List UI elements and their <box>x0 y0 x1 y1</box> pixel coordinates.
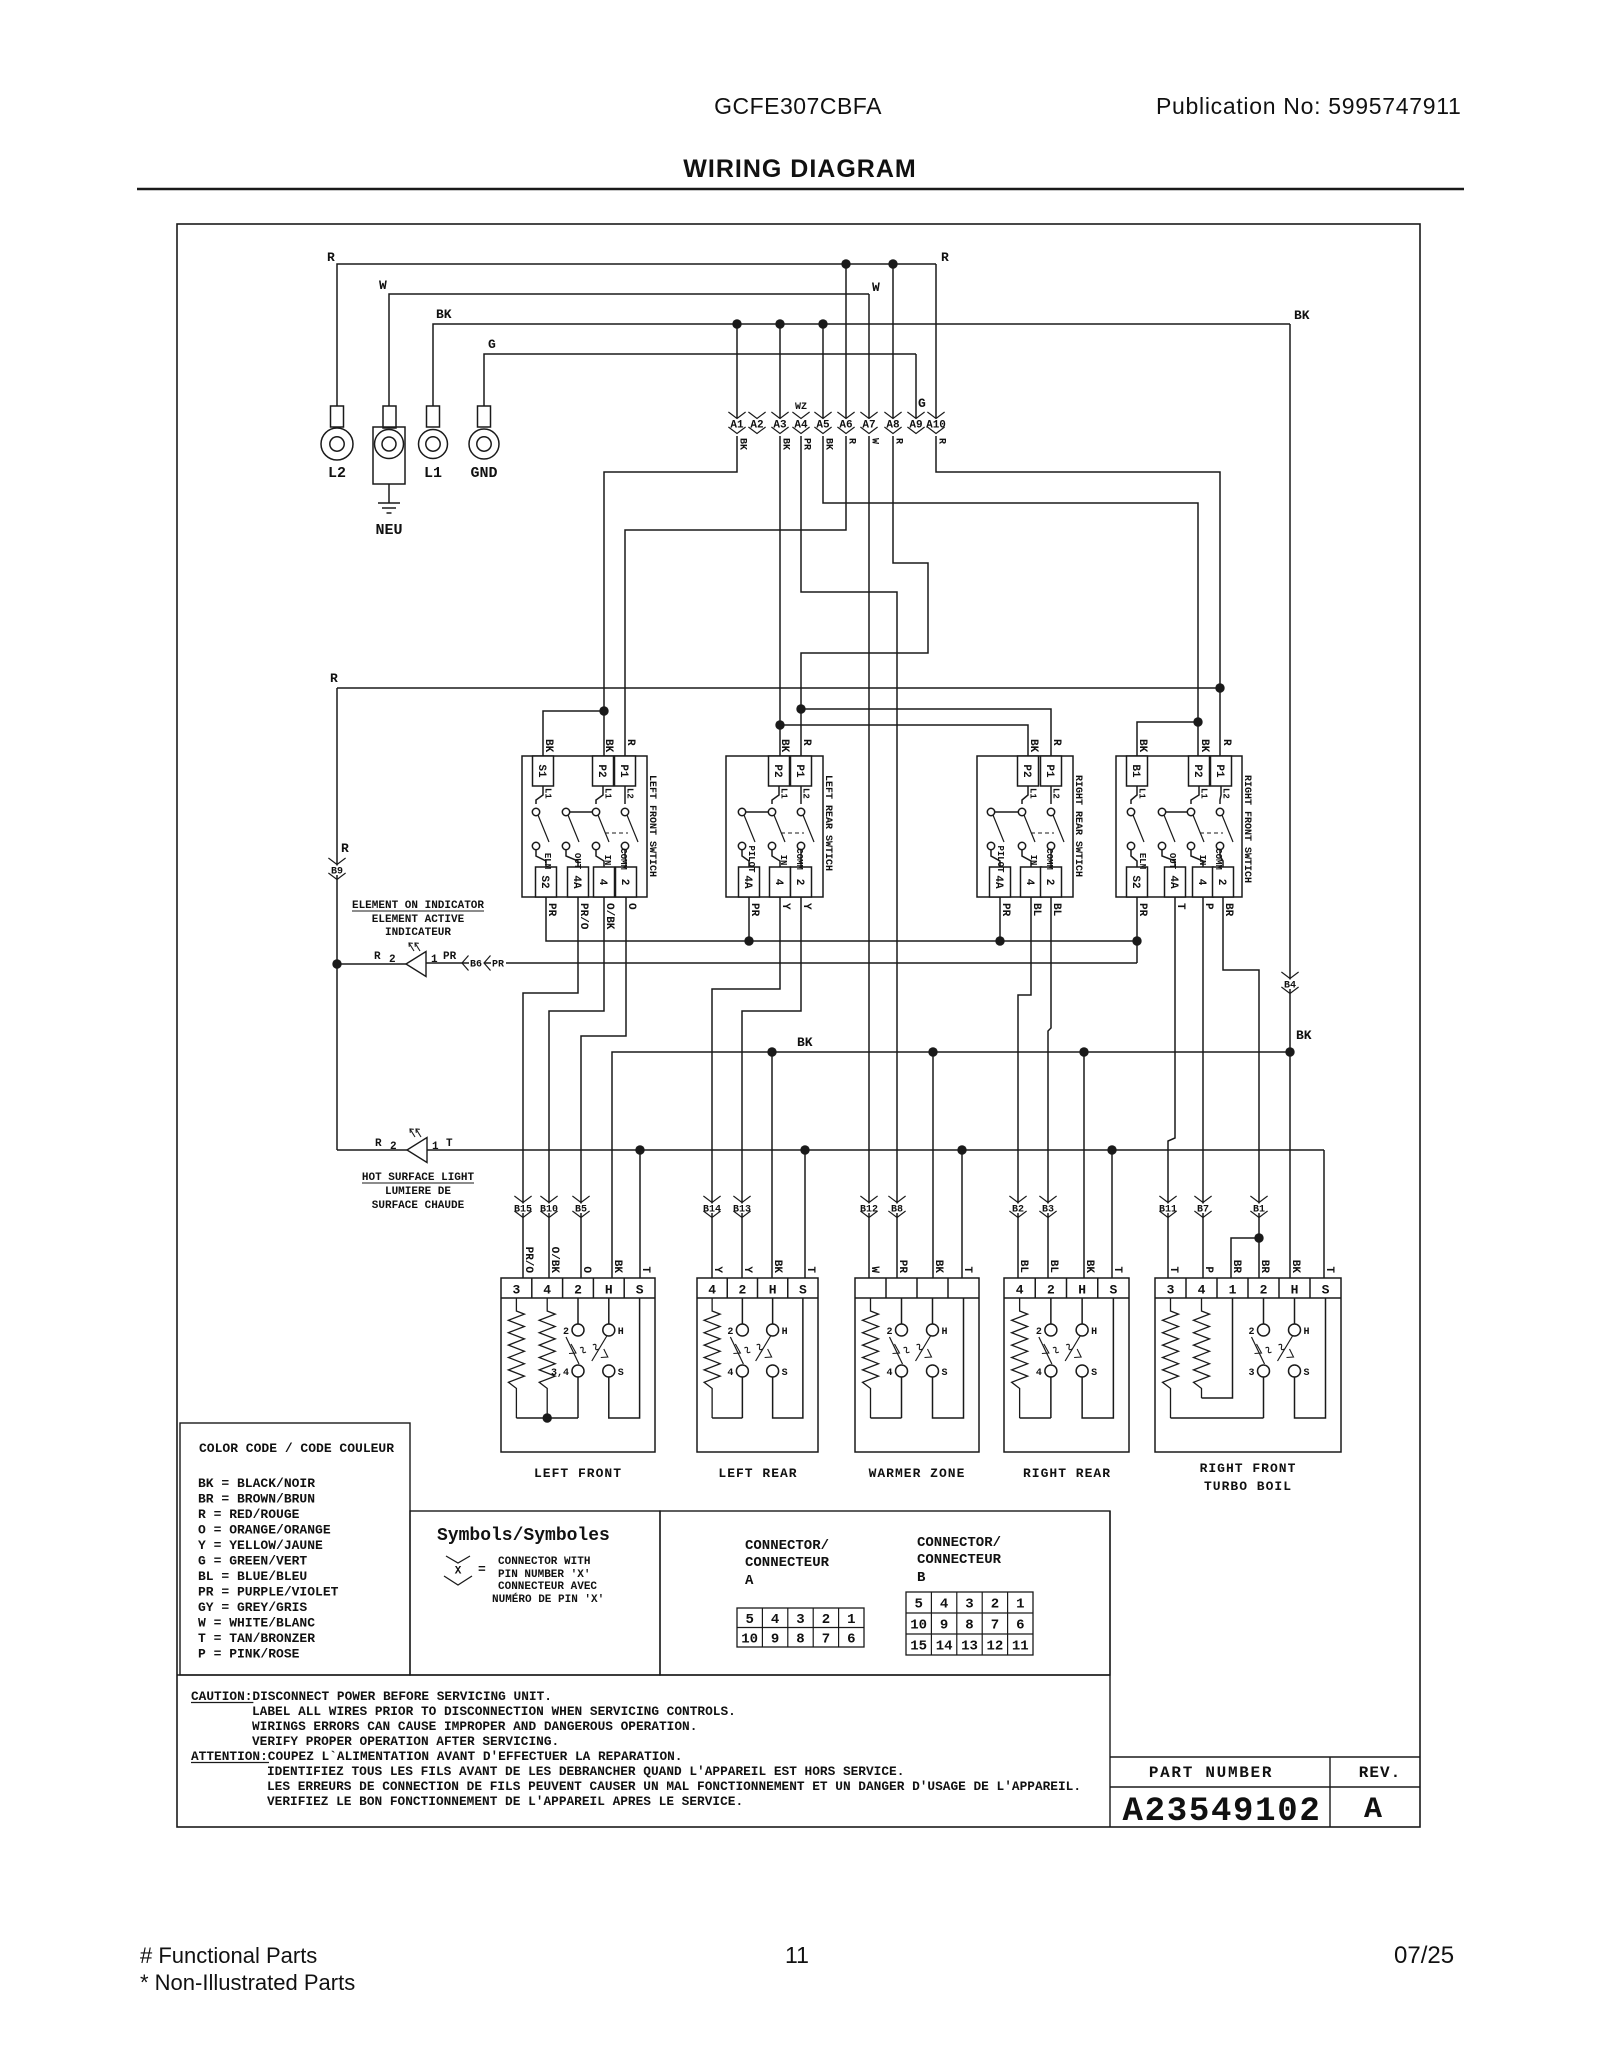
heating element resistor <box>704 1298 720 1418</box>
B1 riser to P2 junction <box>1137 722 1198 756</box>
connector tables box <box>660 1511 1110 1675</box>
svg-text:S: S <box>1109 1283 1117 1298</box>
thermostat contacts <box>736 1324 748 1336</box>
svg-text:B1: B1 <box>1129 764 1141 778</box>
svg-text:T: T <box>804 1266 816 1273</box>
svg-text:CONNECTEUR: CONNECTEUR <box>917 1552 1002 1568</box>
wire RR 4 BL to B2 <box>1018 897 1031 1278</box>
svg-text:PART NUMBER: PART NUMBER <box>1149 1764 1273 1782</box>
svg-text:G: G <box>918 396 926 411</box>
svg-text:2: 2 <box>793 879 805 886</box>
connector pin table <box>906 1592 1033 1655</box>
svg-text:CONNECTOR WITH: CONNECTOR WITH <box>498 1556 590 1568</box>
svg-text:BL: BL <box>1047 1260 1059 1274</box>
wire LF 4A PR/O to B15 <box>523 897 578 1278</box>
wire A8 to LR P1 <box>801 436 928 756</box>
connector pin A2 <box>748 412 765 419</box>
svg-text:2: 2 <box>389 954 396 966</box>
wire LED to PR net <box>426 962 1137 964</box>
terminal 4 of LEFT REAR SWTICH <box>772 850 780 867</box>
svg-text:R: R <box>341 841 349 856</box>
svg-text:PILOT: PILOT <box>746 845 756 873</box>
svg-text:4: 4 <box>1198 1283 1206 1298</box>
svg-text:ELEMENT ACTIVE: ELEMENT ACTIVE <box>372 914 465 926</box>
svg-text:COMM: COMM <box>618 848 628 870</box>
svg-text:10: 10 <box>741 1631 758 1647</box>
terminal P1 of RIGHT REAR SWTICH <box>1041 756 1062 786</box>
svg-text:W = WHITE/BLANC: W = WHITE/BLANC <box>198 1616 315 1631</box>
wire LR 2 Y to B13 <box>742 897 801 1278</box>
terminal S2 of LEFT FRONT SWTICH <box>536 850 546 867</box>
connector pin B5 <box>572 1196 589 1203</box>
svg-text:BK: BK <box>1294 308 1310 323</box>
terminal S1 of LEFT FRONT SWTICH <box>533 756 554 786</box>
svg-text:12: 12 <box>986 1639 1003 1655</box>
svg-text:BK: BK <box>823 438 834 450</box>
svg-text:3: 3 <box>796 1612 804 1628</box>
connector pin B7 <box>1194 1196 1211 1203</box>
connector pin B11 <box>1159 1196 1176 1203</box>
svg-text:2: 2 <box>1260 1283 1268 1298</box>
svg-text:4: 4 <box>1036 1368 1042 1379</box>
svg-text:CONNECTOR/: CONNECTOR/ <box>917 1535 1001 1551</box>
svg-text:IN: IN <box>778 855 788 866</box>
svg-text:4: 4 <box>543 1283 551 1298</box>
svg-text:P2: P2 <box>1020 764 1032 777</box>
svg-text:H: H <box>769 1283 777 1298</box>
svg-text:Y: Y <box>779 903 791 910</box>
terminal 2 of LEFT REAR SWTICH <box>800 850 802 867</box>
svg-text:S2: S2 <box>1129 875 1141 888</box>
svg-text:Y: Y <box>800 903 812 910</box>
svg-text:T: T <box>1167 1266 1179 1273</box>
svg-text:H: H <box>1078 1283 1086 1298</box>
svg-text:L1: L1 <box>779 788 789 799</box>
svg-text:W: W <box>868 1266 880 1273</box>
connector pin B3 <box>1039 1196 1056 1203</box>
supply line W from NEU <box>389 294 869 406</box>
wire RR 4A PR <box>999 897 1001 941</box>
svg-text:IN: IN <box>1028 855 1038 866</box>
symbols box <box>410 1511 660 1675</box>
connector pin B13 <box>733 1196 750 1203</box>
svg-text:O = ORANGE/ORANGE: O = ORANGE/ORANGE <box>198 1523 331 1538</box>
svg-text:VERIFY PROPER OPERATION AFTER: VERIFY PROPER OPERATION AFTER SERVICING. <box>252 1734 559 1749</box>
svg-text:PR/O: PR/O <box>577 903 589 930</box>
svg-text:L1: L1 <box>1199 788 1209 799</box>
wire LR 4 Y to B14 <box>712 897 780 1278</box>
svg-text:S: S <box>799 1283 807 1298</box>
terminal L1 <box>427 406 440 427</box>
svg-text:PR: PR <box>443 951 457 963</box>
svg-text:4: 4 <box>772 879 784 886</box>
connector pin table <box>737 1608 864 1647</box>
svg-text:A: A <box>745 1573 754 1589</box>
heating element resistor <box>508 1298 524 1418</box>
svg-text:CONNECTEUR AVEC: CONNECTEUR AVEC <box>498 1581 597 1593</box>
svg-text:BR: BR <box>1230 1260 1242 1274</box>
switch box RIGHT FRONT SWTICH <box>1116 756 1242 897</box>
svg-text:BL: BL <box>1050 903 1062 917</box>
svg-text:BL: BL <box>1030 903 1042 917</box>
svg-text:PR: PR <box>801 438 812 450</box>
svg-text:4: 4 <box>771 1612 779 1628</box>
svg-text:H: H <box>1291 1283 1299 1298</box>
BK drop warmer H <box>932 1052 934 1278</box>
svg-text:4: 4 <box>596 879 608 886</box>
terminal P2 of RIGHT FRONT SWTICH <box>1189 756 1210 786</box>
part number box <box>1110 1756 1420 1758</box>
LED hot surface light <box>337 1149 407 1151</box>
element block RIGHT REAR <box>1004 1278 1129 1452</box>
svg-text:PR/O: PR/O <box>522 1247 534 1274</box>
svg-text:COLOR CODE / CODE COULEUR: COLOR CODE / CODE COULEUR <box>199 1441 394 1456</box>
terminal P2 of LEFT REAR SWTICH <box>769 756 790 786</box>
svg-text:PR: PR <box>545 903 557 917</box>
svg-text:=: = <box>478 1562 486 1577</box>
svg-text:T: T <box>1174 903 1186 910</box>
terminal P2 of LEFT FRONT SWTICH <box>593 756 614 786</box>
connector-with-pin symbol <box>446 1556 470 1563</box>
terminal 2 of RIGHT REAR SWTICH <box>1050 850 1052 867</box>
svg-text:11: 11 <box>785 1942 809 1968</box>
title rule <box>137 188 1464 191</box>
svg-text:* Non-Illustrated Parts: * Non-Illustrated Parts <box>140 1970 355 1995</box>
svg-text:2: 2 <box>727 1327 733 1338</box>
terminal NEU <box>383 406 396 428</box>
svg-text:2: 2 <box>390 1141 397 1153</box>
svg-text:4: 4 <box>886 1368 892 1379</box>
terminal GND <box>478 406 491 427</box>
svg-text:S: S <box>1091 1368 1097 1379</box>
svg-text:9: 9 <box>940 1618 948 1634</box>
supply line R from L2 <box>337 264 936 406</box>
connector pin B14 <box>703 1196 720 1203</box>
connector pin A10 <box>927 412 944 419</box>
svg-text:B: B <box>917 1570 926 1586</box>
svg-text:7: 7 <box>822 1631 830 1647</box>
wire RF 4A T to B11 <box>1168 897 1175 1278</box>
svg-text:BR = BROWN/BRUN: BR = BROWN/BRUN <box>198 1492 315 1507</box>
svg-text:B13: B13 <box>733 1205 751 1216</box>
svg-text:GND: GND <box>470 465 497 482</box>
svg-text:R: R <box>893 438 904 444</box>
svg-text:P2: P2 <box>1191 764 1203 777</box>
svg-text:R: R <box>330 671 338 686</box>
S1 riser to P2 junction <box>543 711 604 756</box>
svg-text:2: 2 <box>991 1597 999 1613</box>
terminal 4A of RIGHT REAR SWTICH <box>991 850 1000 867</box>
terminal P2 of RIGHT REAR SWTICH <box>1018 756 1039 786</box>
wire LF 2 O to B5 <box>581 897 626 1278</box>
connector pin A1 <box>728 412 745 419</box>
svg-text:2: 2 <box>1047 1283 1055 1298</box>
terminal 4 of RIGHT FRONT SWTICH <box>1191 850 1203 867</box>
svg-text:2: 2 <box>1043 879 1055 886</box>
svg-text:B15: B15 <box>514 1205 532 1216</box>
wire A1 to LF P2 <box>604 436 737 756</box>
svg-text:BK: BK <box>1027 739 1039 753</box>
connector pin B15 <box>514 1196 531 1203</box>
svg-text:BK = BLACK/NOIR: BK = BLACK/NOIR <box>198 1476 315 1491</box>
svg-text:6: 6 <box>847 1631 855 1647</box>
svg-text:P: P <box>1202 903 1214 910</box>
svg-text:NUMÉRO DE PIN 'X': NUMÉRO DE PIN 'X' <box>492 1592 604 1606</box>
wire RF S2 PR <box>1136 897 1138 941</box>
svg-text:O/BK: O/BK <box>603 903 615 930</box>
svg-text:07/25: 07/25 <box>1394 1942 1454 1969</box>
svg-text:REV.: REV. <box>1359 1764 1401 1782</box>
svg-text:P = PINK/ROSE: P = PINK/ROSE <box>198 1647 300 1662</box>
svg-text:P: P <box>1202 1266 1214 1273</box>
svg-text:4A: 4A <box>1167 875 1179 889</box>
svg-text:BK: BK <box>778 739 790 753</box>
svg-text:5: 5 <box>745 1612 753 1628</box>
svg-text:PR: PR <box>896 1260 908 1274</box>
svg-text:2: 2 <box>563 1327 569 1338</box>
svg-text:LABEL ALL WIRES PRIOR TO DISCO: LABEL ALL WIRES PRIOR TO DISCONNECTION W… <box>252 1704 736 1719</box>
wire LF 4 O/BK to B10 <box>549 897 604 1278</box>
wire A4 to warmer PR <box>801 436 897 1278</box>
heating element resistor <box>1012 1298 1028 1418</box>
svg-text:10: 10 <box>910 1618 927 1634</box>
wire A3 to LR P2 <box>779 436 781 756</box>
terminal 4 of LEFT FRONT SWTICH <box>596 850 604 867</box>
heating element resistor <box>1194 1298 1210 1398</box>
T bus <box>427 1149 1324 1151</box>
svg-text:1: 1 <box>1229 1283 1237 1298</box>
svg-text:GY = GREY/GRIS: GY = GREY/GRIS <box>198 1600 307 1615</box>
svg-text:1: 1 <box>432 1141 439 1153</box>
svg-text:O: O <box>625 903 637 910</box>
svg-text:S2: S2 <box>538 875 550 888</box>
svg-text:S: S <box>942 1368 948 1379</box>
svg-text:ELM: ELM <box>542 853 552 869</box>
svg-text:2: 2 <box>1036 1327 1042 1338</box>
R drop left <box>336 688 338 1150</box>
connector pin B12 <box>860 1196 877 1203</box>
svg-text:S: S <box>1322 1283 1330 1298</box>
terminal 4 of RIGHT REAR SWTICH <box>1022 850 1031 867</box>
svg-text:WIRINGS ERRORS CAN CAUSE IMPRO: WIRINGS ERRORS CAN CAUSE IMPROPER AND DA… <box>252 1719 697 1734</box>
svg-text:INDICATEUR: INDICATEUR <box>385 927 451 939</box>
svg-text:PR: PR <box>1136 903 1148 917</box>
terminal P1 of LEFT REAR SWTICH <box>791 756 812 786</box>
svg-text:3: 3 <box>1167 1283 1175 1298</box>
svg-text:WIRING DIAGRAM: WIRING DIAGRAM <box>683 155 916 183</box>
svg-text:LEFT REAR SWTICH: LEFT REAR SWTICH <box>822 775 833 871</box>
LED element-on indicator <box>337 963 406 965</box>
wire RR 2 BL to B3 <box>1048 897 1051 1278</box>
svg-text:A10: A10 <box>926 420 946 432</box>
svg-text:A: A <box>1364 1793 1382 1827</box>
svg-text:COMM: COMM <box>794 848 804 870</box>
svg-text:VERIFIEZ LE BON FONCTIONNEMENT: VERIFIEZ LE BON FONCTIONNEMENT DE L'APPA… <box>267 1794 743 1809</box>
svg-text:RIGHT FRONT: RIGHT FRONT <box>1200 1461 1297 1476</box>
branch A8 to RR P1 <box>796 704 805 713</box>
svg-text:T: T <box>639 1266 651 1273</box>
terminal 4A of LEFT REAR SWTICH <box>742 850 749 867</box>
svg-text:P1: P1 <box>617 764 629 778</box>
connector pin A9 <box>907 412 924 419</box>
svg-text:4: 4 <box>727 1368 733 1379</box>
branch B1 to element pin 1 <box>1254 1233 1263 1242</box>
svg-text:G: G <box>488 337 496 352</box>
svg-text:R: R <box>1050 739 1062 746</box>
svg-text:S: S <box>636 1283 644 1298</box>
thermostat contacts <box>896 1324 908 1336</box>
svg-text:14: 14 <box>936 1639 953 1655</box>
svg-text:HOT SURFACE LIGHT: HOT SURFACE LIGHT <box>362 1172 475 1184</box>
svg-text:BK: BK <box>611 1260 623 1274</box>
svg-text:5: 5 <box>914 1597 922 1613</box>
terminal S2 of RIGHT FRONT SWTICH <box>1131 850 1137 867</box>
svg-text:L1: L1 <box>543 788 553 799</box>
wire A10 to RF P1 <box>936 436 1220 756</box>
svg-text:R: R <box>846 438 857 444</box>
connector pin A6 <box>837 412 854 419</box>
color code box <box>180 1423 410 1675</box>
T drops to element S pins <box>639 1150 641 1278</box>
connector pin B8 <box>888 1196 905 1203</box>
element block WARMER ZONE <box>855 1278 979 1452</box>
BK drop LR H <box>771 1052 773 1278</box>
svg-text:R: R <box>800 739 812 746</box>
heating element resistor <box>1163 1298 1179 1418</box>
svg-text:2: 2 <box>1248 1327 1254 1338</box>
svg-text:R = RED/ROUGE: R = RED/ROUGE <box>198 1507 300 1522</box>
heating element resistor <box>863 1298 879 1418</box>
svg-text:4: 4 <box>1016 1283 1024 1298</box>
switch box RIGHT REAR SWTICH <box>977 756 1073 897</box>
svg-text:H: H <box>1304 1327 1310 1338</box>
branch A3 to RR P2 <box>775 720 784 729</box>
svg-text:BK: BK <box>1083 1260 1095 1274</box>
svg-text:BK: BK <box>1198 739 1210 753</box>
svg-text:2: 2 <box>574 1283 582 1298</box>
svg-text:R: R <box>624 739 636 746</box>
svg-text:BK: BK <box>797 1035 813 1050</box>
svg-text:IN: IN <box>1197 855 1207 866</box>
terminal 4A of RIGHT FRONT SWTICH <box>1162 850 1175 867</box>
connector pin B1 <box>1250 1196 1267 1203</box>
svg-text:CONNECTOR/: CONNECTOR/ <box>745 1538 829 1554</box>
svg-text:R: R <box>1220 739 1232 746</box>
svg-text:PR: PR <box>999 903 1011 917</box>
svg-text:ATTENTION:COUPEZ L`ALIMENTATIO: ATTENTION:COUPEZ L`ALIMENTATION AVANT D'… <box>191 1749 682 1764</box>
svg-text:LEFT FRONT: LEFT FRONT <box>534 1466 622 1481</box>
feed stubs to A pins <box>736 324 738 418</box>
svg-text:LEFT REAR: LEFT REAR <box>718 1466 797 1481</box>
svg-text:T = TAN/BRONZER: T = TAN/BRONZER <box>198 1631 315 1646</box>
svg-text:RIGHT REAR: RIGHT REAR <box>1023 1466 1111 1481</box>
svg-text:Publication No: 5995747911: Publication No: 5995747911 <box>1156 93 1462 119</box>
element block LEFT REAR <box>697 1278 818 1452</box>
svg-text:L1: L1 <box>1137 788 1147 799</box>
svg-text:1: 1 <box>1016 1597 1024 1613</box>
svg-text:PR = PURPLE/VIOLET: PR = PURPLE/VIOLET <box>198 1585 339 1600</box>
svg-text:BK: BK <box>780 438 791 450</box>
svg-text:8: 8 <box>796 1631 804 1647</box>
heating element resistor <box>539 1298 555 1418</box>
svg-text:W: W <box>872 280 880 295</box>
connector pin A3 <box>771 412 788 419</box>
svg-text:COMM: COMM <box>1213 848 1223 870</box>
svg-text:3,4: 3,4 <box>551 1368 569 1379</box>
svg-text:4: 4 <box>940 1597 948 1613</box>
svg-text:B12: B12 <box>860 1205 878 1216</box>
svg-text:L2: L2 <box>328 465 346 482</box>
svg-text:4: 4 <box>708 1283 716 1298</box>
svg-text:WARMER ZONE: WARMER ZONE <box>869 1466 966 1481</box>
svg-text:P1: P1 <box>793 764 805 778</box>
svg-text:P1: P1 <box>1213 764 1225 778</box>
svg-text:Y: Y <box>741 1266 753 1273</box>
svg-text:1: 1 <box>847 1612 855 1628</box>
svg-text:LEFT FRONT SWTICH: LEFT FRONT SWTICH <box>646 775 657 877</box>
svg-text:R: R <box>941 250 949 265</box>
svg-text:L1: L1 <box>424 465 442 482</box>
svg-text:OUT: OUT <box>572 853 582 870</box>
svg-text:2: 2 <box>886 1327 892 1338</box>
svg-text:BK: BK <box>602 739 614 753</box>
svg-text:Symbols/Symboles: Symbols/Symboles <box>437 1526 610 1546</box>
supply line BK from L1 <box>433 324 1290 406</box>
connector pin A7 <box>860 412 877 419</box>
svg-text:L1: L1 <box>1028 788 1038 799</box>
terminal B1 of RIGHT FRONT SWTICH <box>1127 756 1148 786</box>
svg-text:W: W <box>379 278 387 293</box>
svg-text:IDENTIFIEZ TOUS LES FILS AVANT: IDENTIFIEZ TOUS LES FILS AVANT DE LES DE… <box>267 1764 904 1779</box>
thermostat contacts <box>572 1324 584 1336</box>
svg-text:PILOT: PILOT <box>995 845 1005 873</box>
terminal 4A of LEFT FRONT SWTICH <box>566 850 578 867</box>
connector pin A5 <box>814 412 831 419</box>
svg-text:2: 2 <box>822 1612 830 1628</box>
thermostat contacts <box>1258 1324 1270 1336</box>
svg-text:RIGHT FRONT SWTICH: RIGHT FRONT SWTICH <box>1241 775 1252 883</box>
svg-text:7: 7 <box>991 1618 999 1634</box>
BK bus <box>612 1052 1290 1278</box>
svg-text:L2: L2 <box>625 788 635 799</box>
svg-text:BK: BK <box>771 1260 783 1274</box>
svg-text:Y = YELLOW/JAUNE: Y = YELLOW/JAUNE <box>198 1538 323 1553</box>
svg-text:NEU: NEU <box>375 522 402 539</box>
BK drop right side <box>1289 324 1291 1278</box>
svg-text:BK: BK <box>932 1260 944 1274</box>
svg-text:SURFACE CHAUDE: SURFACE CHAUDE <box>372 1200 465 1212</box>
svg-text:OUT: OUT <box>1167 853 1177 870</box>
svg-text:H: H <box>942 1327 948 1338</box>
svg-text:L2: L2 <box>1051 788 1061 799</box>
R bus <box>337 687 1220 689</box>
svg-text:# Functional Parts: # Functional Parts <box>140 1943 317 1968</box>
svg-text:Y: Y <box>711 1266 723 1273</box>
svg-text:13: 13 <box>961 1639 978 1655</box>
terminal P1 of RIGHT FRONT SWTICH <box>1211 756 1232 786</box>
element block LEFT FRONT <box>501 1278 655 1452</box>
svg-text:T: T <box>446 1138 453 1150</box>
svg-text:3: 3 <box>1248 1368 1254 1379</box>
svg-text:L2: L2 <box>801 788 811 799</box>
svg-text:CAUTION:DISCONNECT POWER BEFOR: CAUTION:DISCONNECT POWER BEFORE SERVICIN… <box>191 1689 552 1704</box>
svg-text:4A: 4A <box>992 875 1004 889</box>
connector pin B4 <box>1281 972 1298 979</box>
svg-text:ELEMENT ON INDICATOR: ELEMENT ON INDICATOR <box>352 900 484 912</box>
PR bus <box>546 897 1137 941</box>
svg-text:4A: 4A <box>741 875 753 889</box>
svg-text:COMM: COMM <box>1044 848 1054 870</box>
